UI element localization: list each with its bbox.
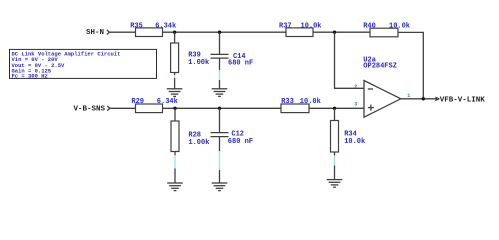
resistor R40 (363, 22, 410, 37)
svg-text:10.0k: 10.0k (389, 22, 410, 30)
wire R40 to output node (398, 32, 423, 98)
node at output/feedback (422, 97, 425, 100)
wire node to R34 (334, 108, 336, 120)
svg-text:OP284FSZ: OP284FSZ (363, 63, 397, 71)
svg-text:6.34k: 6.34k (157, 98, 178, 106)
node at C14 branch (218, 31, 221, 34)
wire R37 to R40 (313, 31, 370, 33)
wire node to R39 (174, 32, 176, 43)
svg-text:V-B-SNS: V-B-SNS (74, 105, 106, 113)
wire R29 to R33 (163, 107, 282, 109)
wire node to R28 (174, 108, 176, 121)
wire R33 to pin 3 (309, 107, 364, 109)
ground (C12) (212, 183, 228, 191)
svg-text:R40: R40 (363, 22, 376, 30)
wire port V-B-SNS to R29 (110, 107, 136, 109)
svg-text:2: 2 (354, 84, 357, 90)
svg-text:10.0k: 10.0k (344, 138, 365, 146)
svg-text:3: 3 (354, 102, 357, 108)
wire op-amp output (401, 98, 437, 100)
resistor R29 (131, 98, 177, 113)
note box: DC Link Voltage Amplifier Circuit (10, 49, 157, 79)
svg-text:10.0k: 10.0k (301, 22, 322, 30)
svg-text:R37: R37 (279, 22, 292, 30)
wire R35 to R37 (163, 31, 287, 33)
svg-text:SH-N: SH-N (86, 29, 104, 37)
wire node down to pin 2 (335, 32, 365, 88)
capacitor C14 (211, 53, 254, 68)
svg-text:Fc = 300 Hz: Fc = 300 Hz (12, 73, 48, 80)
resistor R39 (171, 43, 210, 73)
svg-text:VFB-V-LINK: VFB-V-LINK (440, 96, 486, 104)
node at R34 branch (333, 107, 336, 110)
node at C12 branch (218, 107, 221, 110)
node at R28 branch (173, 107, 176, 110)
svg-text:680 nF: 680 nF (228, 138, 253, 146)
ground (R34) (327, 180, 343, 188)
wire node to C12 (219, 108, 221, 132)
svg-text:R29: R29 (131, 98, 144, 106)
resistor R37 (279, 22, 322, 36)
wire node to C14 (219, 32, 221, 54)
svg-text:1: 1 (407, 93, 410, 99)
wire R39 to ground (174, 73, 176, 89)
svg-text:R35: R35 (130, 22, 143, 30)
resistor R33 (281, 98, 321, 113)
node at inverting branch (333, 31, 336, 34)
svg-text:R33: R33 (281, 98, 294, 106)
wire C12 to ground (219, 137, 221, 183)
resistor R28 (171, 121, 209, 152)
ground (C14) (212, 89, 228, 97)
svg-text:1.00k: 1.00k (188, 59, 209, 67)
svg-text:10.0k: 10.0k (300, 98, 321, 106)
ground (R28) (167, 183, 183, 191)
node at R39 branch (173, 31, 176, 34)
wire C14 to ground (219, 58, 221, 88)
port SH-N (86, 29, 110, 37)
port VFB-V-LINK (435, 96, 485, 104)
op-amp U2a OP284FSZ (363, 56, 401, 117)
resistor R35 (130, 22, 176, 36)
wire R28 to ground (174, 152, 176, 183)
svg-text:680 nF: 680 nF (228, 60, 253, 68)
capacitor C12 (211, 130, 254, 146)
resistor R34 (331, 121, 366, 153)
ground (R39) (167, 89, 183, 97)
svg-text:1.00k: 1.00k (188, 139, 209, 147)
svg-text:6.34k: 6.34k (155, 22, 176, 30)
wire R34 to ground (334, 152, 336, 179)
wire port SH-N to R35 (110, 31, 136, 33)
port V-B-SNS (74, 105, 110, 113)
